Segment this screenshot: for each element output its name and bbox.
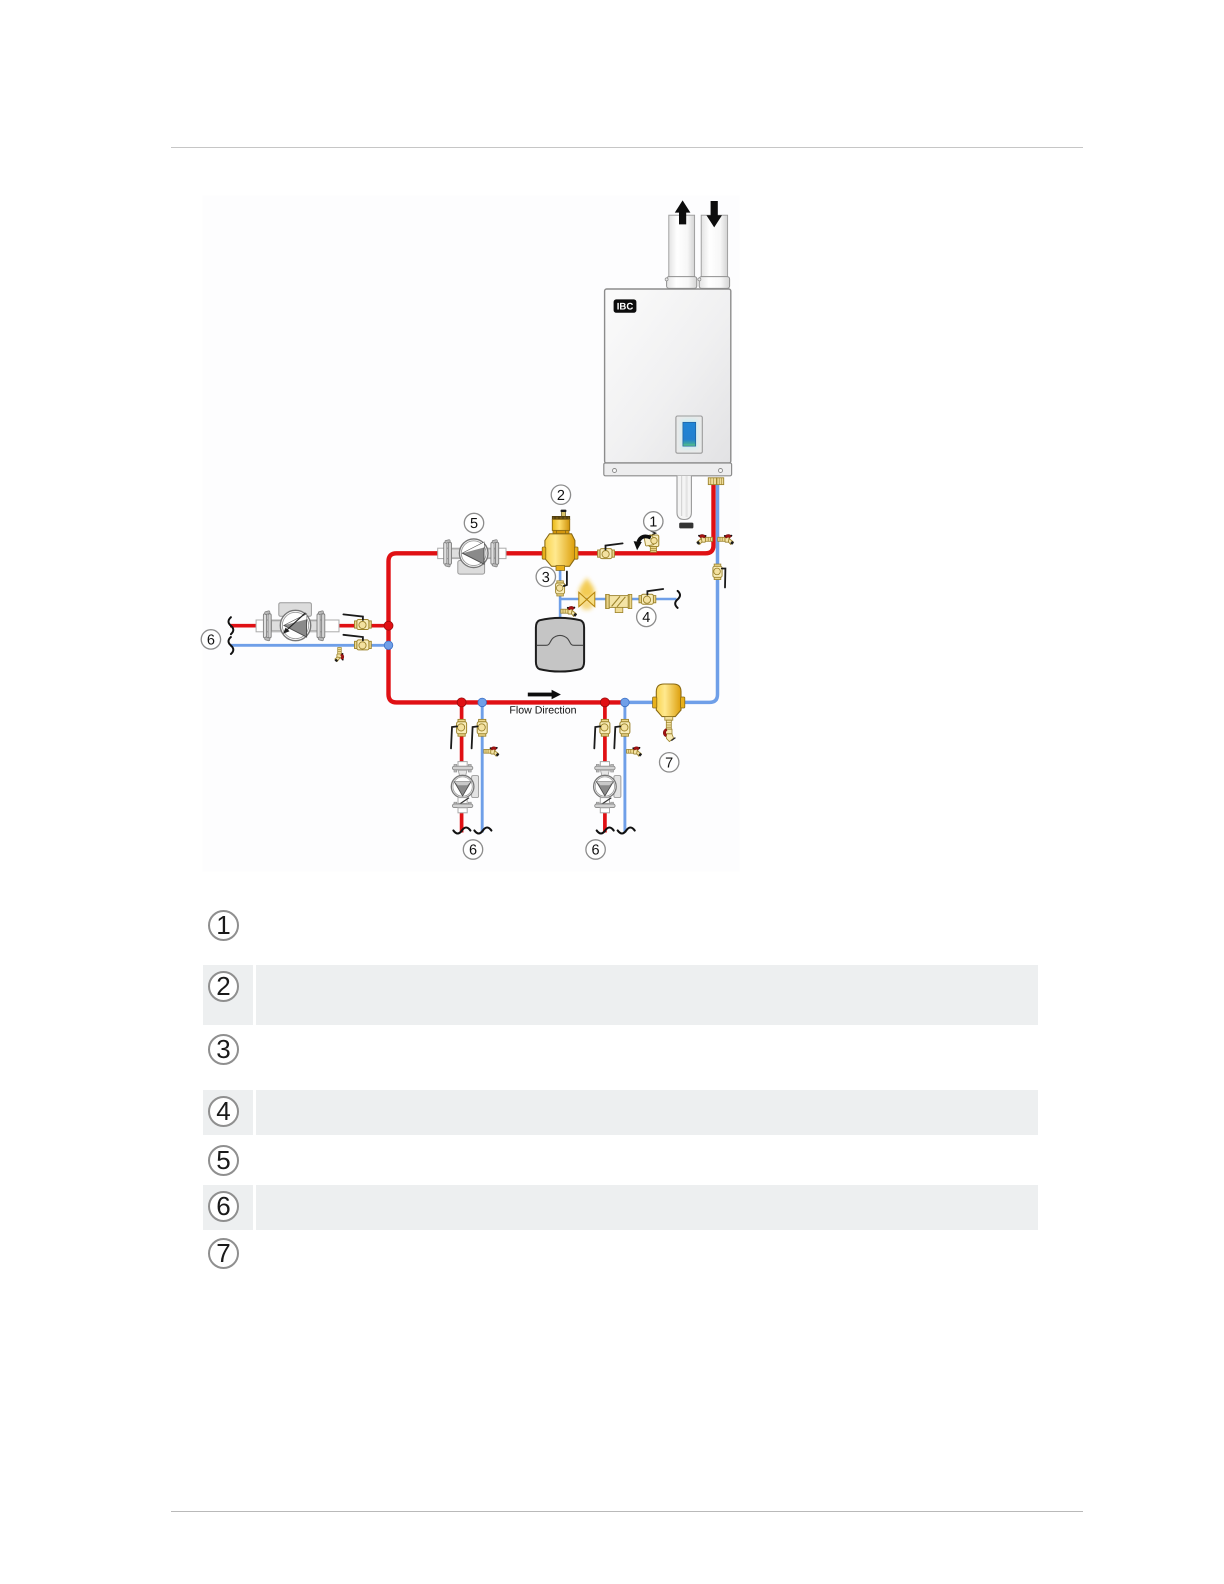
zone header return stub (left, blue)	[230, 644, 389, 647]
svg-text:4: 4	[642, 610, 650, 626]
junction node (zone 2 supply)	[600, 698, 609, 707]
legend shaded row 4	[203, 1090, 253, 1135]
exhaust arrow (up)	[675, 200, 691, 224]
ball valve (zone 2 return)	[614, 719, 630, 748]
pipe break (zone 2 return)	[618, 828, 635, 834]
junction node (return/left header)	[384, 641, 393, 650]
junction node (zone 1 supply)	[457, 698, 466, 707]
zone 2 supply drop	[603, 702, 607, 832]
intake arrow (down)	[706, 201, 722, 227]
svg-text:6: 6	[592, 843, 600, 859]
condensate trap	[677, 476, 693, 529]
legend item 5	[208, 1145, 239, 1176]
air separator drop pipe (to expansion tank)	[559, 566, 562, 617]
svg-text:6: 6	[207, 633, 215, 649]
zone 2 return drop	[623, 702, 626, 832]
system pump (left header)	[256, 603, 339, 641]
air separator (callout 2 device)	[542, 510, 578, 571]
IBC logo	[614, 299, 637, 312]
svg-text:IBC: IBC	[617, 302, 634, 313]
drain valve (left return)	[335, 648, 344, 663]
ball valve (left supply)	[343, 614, 371, 629]
supply pipe (hot, red main loop)	[389, 484, 714, 702]
boiler vent pipe (intake, right)	[698, 215, 730, 288]
check valve / union	[606, 594, 632, 612]
bottom rule	[171, 1511, 1083, 1512]
pipe break (make-up supply)	[675, 591, 680, 608]
callout 7	[660, 753, 679, 772]
boiler cabinet	[604, 289, 732, 476]
svg-text:Flow Direction: Flow Direction	[509, 705, 576, 717]
pipe break (zone 1 return)	[474, 828, 491, 834]
ball valve (return riser)	[713, 564, 726, 587]
legend item 2	[208, 971, 239, 1002]
ball valve (zone 2 supply)	[594, 719, 610, 748]
callout 6 (zone 2)	[586, 840, 605, 859]
legend item 4	[208, 1096, 239, 1127]
zone 1 return drop	[481, 702, 484, 832]
pressure reducing fill valve	[579, 578, 595, 611]
pipe break (left supply)	[229, 617, 234, 634]
legend shaded row 2	[203, 965, 253, 1025]
zone 2 circulator pump	[594, 762, 621, 813]
svg-text:6: 6	[469, 843, 477, 859]
svg-text:5: 5	[470, 516, 478, 532]
backflow preventer (callout 1 device)	[644, 530, 659, 552]
ball valve (make-up line, callout 4 device)	[639, 589, 663, 604]
ball valve (supply main)	[598, 543, 623, 558]
legend item 7	[208, 1238, 239, 1269]
callout 6 (left header)	[201, 630, 220, 649]
svg-text:7: 7	[665, 755, 673, 771]
callout 5	[464, 513, 483, 532]
make-up water line	[560, 598, 676, 601]
legend item 1	[208, 910, 239, 941]
pipe break (zone 2 supply)	[597, 828, 614, 834]
callout 1	[644, 512, 663, 531]
expansion tank	[536, 618, 584, 672]
junction node (zone 1 return)	[478, 698, 487, 707]
zone header supply stub (left, red)	[230, 624, 389, 628]
expansion tank drain valve	[561, 606, 577, 616]
junction node (supply/left header)	[384, 621, 393, 630]
callout 2	[551, 485, 570, 504]
boiler drain valve (return side)	[718, 534, 734, 544]
boiler vent pipe (exhaust, left)	[665, 215, 697, 288]
drain valve (zone 2 return)	[627, 747, 642, 757]
ball valve (zone 1 return)	[472, 719, 488, 748]
air purger (callout 7 device)	[653, 684, 685, 742]
junction node (zone 2 return)	[621, 698, 630, 707]
ball valve (zone 1 supply)	[451, 719, 467, 748]
legend item 6	[208, 1191, 239, 1222]
drain valve (zone 1 return)	[484, 747, 499, 757]
top rule	[171, 147, 1083, 148]
svg-text:3: 3	[542, 570, 550, 586]
pipe break (left return)	[229, 637, 234, 654]
boiler pump P5	[438, 539, 506, 574]
callout 3	[536, 567, 555, 586]
return pipe (cold, right riser)	[624, 484, 718, 702]
svg-text:2: 2	[557, 488, 565, 504]
ball valve below air separator (callout 3 device)	[556, 572, 567, 596]
pipe break (zone 1 supply)	[453, 828, 470, 834]
flow direction arrow	[528, 690, 561, 700]
boiler drain valve (supply side)	[696, 534, 712, 544]
legend item 3	[208, 1034, 239, 1065]
legend shaded row 6	[203, 1185, 253, 1231]
zone 1 supply drop	[460, 702, 464, 832]
callout 6 (zone 1)	[463, 840, 482, 859]
ball valve (left return)	[343, 635, 371, 650]
boiler union fittings	[708, 478, 723, 485]
zone 1 circulator pump	[451, 762, 478, 813]
diagram backdrop	[203, 196, 740, 872]
callout 4	[637, 607, 656, 626]
boiler display	[676, 416, 702, 453]
recirculation arrow at backflow preventer	[634, 536, 651, 550]
svg-text:1: 1	[649, 515, 657, 531]
